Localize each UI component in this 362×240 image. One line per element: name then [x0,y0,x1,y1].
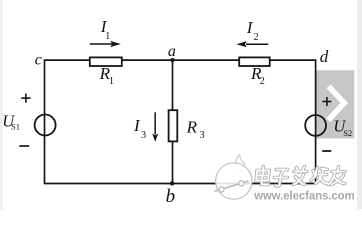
label Us1 [2,111,20,131]
svg-text:3: 3 [200,130,205,141]
node b junction dot [170,181,174,185]
svg-text:d: d [320,47,329,66]
wire: left branch c to bottom [44,59,46,183]
label R1 [99,64,114,87]
wire: right branch d to bottom [315,59,317,183]
svg-text:1: 1 [109,76,114,87]
current arrow I1 [90,41,121,47]
svg-text:c: c [35,51,42,68]
label I3 [133,116,146,141]
resistor R2 [239,57,270,66]
plus sign of Us2 [322,97,331,106]
svg-text:a: a [168,43,176,60]
wire: top R2 to d corner [270,59,316,61]
watermark white chevron [328,86,344,120]
svg-text:1: 1 [105,31,110,42]
svg-text:R: R [186,118,198,137]
voltage source Us1 [35,115,56,136]
left page-edge strip [0,0,3,209]
wire: top c to R1 [45,59,91,61]
resistor R3 [169,110,178,141]
svg-text:2: 2 [254,32,259,43]
wire: bottom rail [44,183,317,185]
plus sign of Us1 [21,94,30,103]
resistor R1 [90,57,122,66]
right page-edge strip [357,0,362,209]
svg-text:S1: S1 [11,122,20,132]
watermark text dianzifashaoyou [255,167,346,187]
svg-text:3: 3 [141,130,146,141]
svg-text:www.elecfans.com: www.elecfans.com [253,189,354,203]
voltage source Us2 [305,115,326,136]
watermark logo circle [215,155,253,199]
current arrow I3 [152,112,158,142]
label R3 [186,118,205,141]
wire: middle branch a to R3 [172,60,174,110]
svg-text:b: b [166,186,176,207]
label Us2 [333,117,352,138]
svg-text:I: I [133,116,141,135]
label R2 [250,64,265,87]
minus sign of Us2 [322,150,331,152]
current arrow I2 [236,41,268,47]
svg-text:I: I [246,18,254,37]
minus sign of Us1 [19,145,29,147]
label I2 [246,18,259,43]
wire: middle branch R3 to b [172,141,174,183]
label I1 [100,17,111,42]
node a junction dot [170,58,174,62]
svg-text:2: 2 [260,76,265,87]
wire: top R1 to R2 through node a [122,59,240,61]
watermark gray logo box [316,70,354,138]
svg-text:S2: S2 [343,128,352,138]
